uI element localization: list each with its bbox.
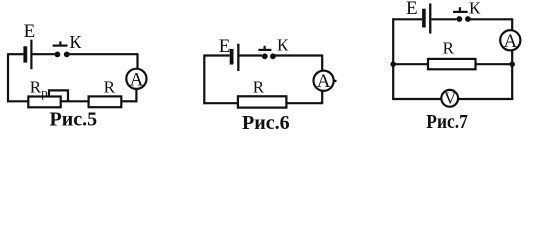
svg-text:E: E xyxy=(219,36,231,57)
wire: switch to top-right corner xyxy=(273,54,322,56)
ammeter A (circle) xyxy=(126,69,146,89)
switch K: lever tick xyxy=(459,7,461,12)
svg-text:Рис.5: Рис.5 xyxy=(50,108,98,130)
battery E: thick short plate xyxy=(230,49,234,65)
wire: right rail lower xyxy=(321,91,323,103)
wire: middle wire left segment xyxy=(393,63,428,65)
wire: left rail xyxy=(392,18,394,100)
switch K: left contact dot xyxy=(456,16,462,22)
resistor R box xyxy=(238,96,287,107)
switch K: left contact dot xyxy=(55,52,61,58)
svg-text:R: R xyxy=(104,78,116,97)
wire: between rheostat and R xyxy=(60,100,89,102)
switch K: lever tick xyxy=(59,41,61,45)
wire: switch to top-right corner xyxy=(67,53,138,55)
switch K: right contact dot xyxy=(270,53,276,59)
switch K: left contact dot xyxy=(262,53,268,59)
wire: top wire left segment xyxy=(204,54,229,56)
wire: bottom left segment xyxy=(203,102,238,104)
svg-text:V: V xyxy=(444,89,457,108)
switch K: right contact dot xyxy=(465,16,471,22)
wire: battery to switch xyxy=(32,53,54,55)
switch K: right contact dot xyxy=(64,52,70,58)
svg-text:К: К xyxy=(277,36,289,55)
ammeter A (circle) xyxy=(314,71,334,91)
battery E: thin long plate xyxy=(237,44,239,71)
wire: bottom wire right segment xyxy=(459,98,514,100)
wire: top wire left segment xyxy=(393,18,422,20)
svg-text:R: R xyxy=(443,38,455,57)
switch K: open lever bar xyxy=(453,11,468,13)
resistor R box xyxy=(89,96,122,107)
wire: middle wire right segment xyxy=(476,63,513,65)
rheostat Rp box xyxy=(28,97,60,108)
svg-text:Рис.6: Рис.6 xyxy=(242,112,290,134)
node: junction right (middle wire / right rail) xyxy=(509,61,515,67)
wire: right rail upper xyxy=(321,55,323,71)
svg-text:E: E xyxy=(406,0,418,19)
wire: battery to switch xyxy=(431,18,456,20)
wire: bottom wire left segment xyxy=(392,98,441,100)
node: junction left (middle wire / left rail) xyxy=(390,61,396,67)
battery E: thick short plate xyxy=(422,9,426,28)
battery E (cell): thick short negative plate xyxy=(23,46,27,62)
battery E (cell): thin long positive plate xyxy=(30,40,32,69)
resistor R box xyxy=(428,59,476,69)
svg-text:R: R xyxy=(253,77,265,96)
wire: left rail xyxy=(7,53,9,102)
rheostat slider bracket xyxy=(49,90,68,101)
wire: right rail lower (ammeter to bottom wire) xyxy=(135,89,137,102)
switch K: open lever bar xyxy=(258,49,271,51)
wire: left rail xyxy=(203,55,205,105)
switch K: lever tick xyxy=(264,46,266,50)
svg-text:А: А xyxy=(130,69,144,90)
switch K: open lever bar xyxy=(53,44,68,46)
svg-text:E: E xyxy=(24,21,36,42)
wire: right rail upper (corner to ammeter) xyxy=(511,18,513,30)
svg-text:К: К xyxy=(469,0,481,18)
wire: bottom right segment xyxy=(286,102,324,104)
wire: switch to top-right corner xyxy=(468,18,512,20)
wire: top wire left segment to battery xyxy=(8,53,23,55)
svg-text:Рис.7: Рис.7 xyxy=(426,111,468,133)
ammeter needle tick xyxy=(334,80,337,82)
wire: battery to switch xyxy=(240,54,263,56)
svg-text:А: А xyxy=(317,71,331,92)
ammeter A (circle) xyxy=(500,30,520,50)
wire: right rail lower (ammeter to bottom) xyxy=(511,51,513,100)
voltmeter V (circle) xyxy=(441,90,458,107)
wire: bottom left segment xyxy=(7,100,28,102)
battery E: thin long plate xyxy=(429,3,431,33)
svg-text:К: К xyxy=(69,32,82,52)
svg-text:А: А xyxy=(504,31,518,52)
wire: right rail upper (corner to ammeter) xyxy=(136,53,138,69)
wire: bottom right segment xyxy=(122,100,138,102)
